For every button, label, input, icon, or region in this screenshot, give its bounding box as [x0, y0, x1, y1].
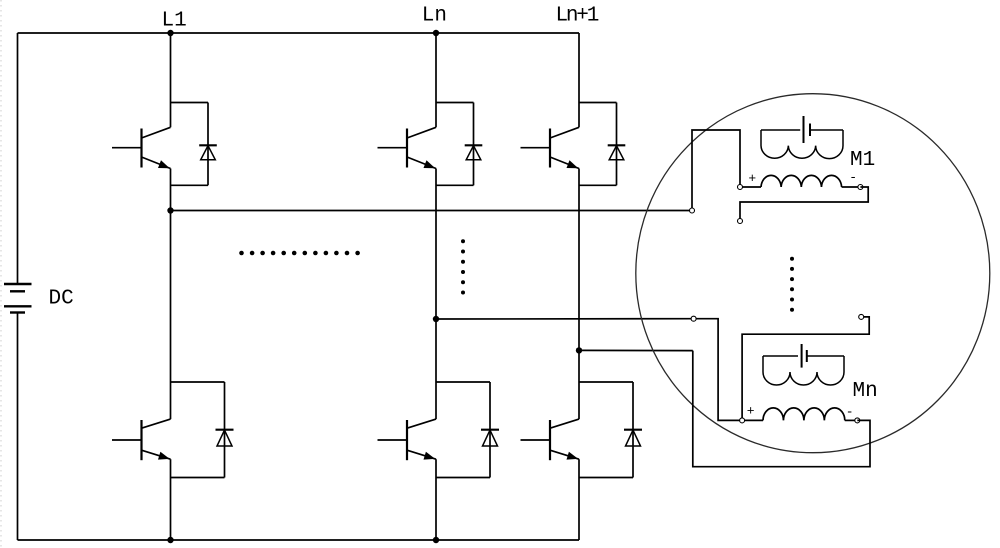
wire Q6 cell branches — [579, 381, 633, 383]
node M1 input terminal — [690, 208, 695, 213]
diode D4 — [481, 382, 499, 478]
battery Mn magnet — [801, 344, 803, 368]
node L1 bottom bus junction — [167, 537, 173, 543]
node L1 top bus junction — [167, 30, 173, 36]
node Mn chain-in terminal — [859, 314, 864, 319]
node M1 winding left terminal — [738, 185, 743, 190]
transistor Q2 — [112, 419, 171, 460]
wire leg L1 upper — [170, 33, 172, 127]
node Ln midpoint junction — [433, 316, 439, 322]
wire Mn winding lead-out — [845, 419, 858, 421]
node Ln+1 midpoint junction — [576, 347, 582, 353]
wire Q5 cell branches — [579, 102, 617, 104]
transistor Q1 — [112, 127, 171, 168]
wire leg Ln lower — [435, 459, 437, 540]
stator pole Mn core — [763, 356, 844, 385]
wire Ln+1 phase output — [579, 349, 693, 351]
page edge left — [0, 0, 2, 548]
svg-text:+: + — [747, 404, 755, 419]
svg-text:L1: L1 — [162, 10, 187, 33]
transistor Q3 — [378, 127, 437, 168]
wire left rail upper — [17, 33, 19, 284]
battery M1 magnet — [803, 116, 805, 143]
diode D5 — [608, 103, 626, 186]
wire chain-in to Mn winding — [742, 317, 869, 421]
wire leg Ln middle — [435, 169, 437, 420]
node Ln top bus junction — [433, 30, 439, 36]
wire top DC bus — [18, 32, 580, 34]
transistor Q4 — [378, 419, 437, 460]
motor boundary circle — [636, 94, 990, 453]
node Mn winding left terminal — [740, 418, 745, 423]
svg-text:-: - — [849, 170, 857, 185]
svg-text:DC: DC — [49, 288, 74, 311]
wire L1 output to M1 winding — [692, 130, 740, 211]
node L1 midpoint junction — [167, 207, 173, 213]
node M1 chain-out terminal — [738, 219, 743, 224]
wire Q3 cell branches — [436, 102, 474, 104]
wire bottom DC bus — [18, 539, 580, 541]
svg-text:M1: M1 — [850, 149, 875, 172]
ellipsis dots right of Ln leg — [461, 239, 465, 294]
inductor Mn winding — [763, 408, 845, 421]
wire Q1 cell branches — [171, 102, 209, 104]
wire leg L1 lower — [170, 459, 172, 540]
wire Ln phase output — [436, 318, 694, 320]
wire M1 winding lead-out — [842, 186, 861, 188]
wire leg Ln1 middle — [578, 169, 580, 420]
node M1 winding right terminal — [858, 185, 863, 190]
diode D6 — [624, 382, 642, 478]
node Mn input terminal — [691, 316, 696, 321]
wire Mn winding lead-in — [742, 419, 763, 421]
transistor Q5 — [521, 127, 580, 168]
wire M1 return loop — [740, 187, 868, 221]
wire left rail lower — [17, 313, 19, 541]
svg-text:Mn: Mn — [853, 380, 878, 403]
wire Ln+1 output return loop — [693, 351, 870, 467]
inductor M1 winding — [761, 175, 842, 187]
svg-text:+: + — [748, 171, 756, 186]
ellipsis dots winding chain — [790, 257, 794, 312]
wire leg L1 middle — [170, 169, 172, 420]
wire Q2 cell branches — [171, 381, 225, 383]
stator pole M1 core — [761, 130, 843, 159]
svg-text:Ln+1: Ln+1 — [556, 5, 599, 28]
wire L1 phase output — [171, 210, 693, 212]
node Mn winding right terminal — [855, 418, 860, 423]
wire leg Ln1 lower — [578, 459, 580, 540]
wire leg Ln1 upper — [578, 33, 580, 127]
ellipsis dots between L1 and Ln legs — [239, 251, 360, 256]
battery DC source — [4, 283, 32, 285]
node Ln bottom bus junction — [433, 537, 439, 543]
svg-text:-: - — [846, 405, 854, 420]
wire M1 winding lead-in — [740, 186, 761, 188]
diode D3 — [465, 103, 483, 186]
diode D2 — [216, 382, 234, 478]
wire leg Ln upper — [435, 33, 437, 127]
wire Q4 cell branches — [436, 381, 490, 383]
wire Ln output to Mn winding — [694, 319, 743, 421]
diode D1 — [199, 103, 217, 186]
transistor Q6 — [521, 419, 580, 460]
svg-text:Ln: Ln — [422, 5, 447, 28]
